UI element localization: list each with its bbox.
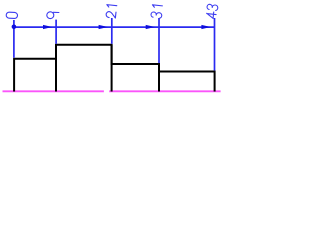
extension line at 21	[111, 18, 113, 44]
extension line at 9	[55, 20, 57, 44]
label 0	[6, 12, 18, 19]
baseline (magenta) right segment	[109, 90, 220, 92]
label 9	[46, 11, 58, 18]
origin dot	[12, 25, 17, 30]
arrow at 31	[146, 25, 155, 29]
extension line at 43	[214, 18, 216, 70]
bar divider at x=159.2	[158, 64, 160, 92]
dimension line (blue)	[14, 26, 215, 28]
profile outline (black bars)	[14, 45, 215, 92]
arrow at 9	[43, 25, 52, 29]
label 21	[106, 5, 117, 19]
bar divider at x=56	[55, 45, 57, 92]
label 43	[206, 4, 218, 19]
extension line at 0	[13, 20, 15, 58]
baseline (magenta) left segment	[3, 90, 104, 92]
label 31	[151, 5, 163, 19]
arrow at 43	[201, 25, 210, 29]
extension line at 31	[158, 18, 160, 63]
bar divider at x=112	[111, 45, 113, 92]
arrow at 21	[99, 25, 108, 29]
